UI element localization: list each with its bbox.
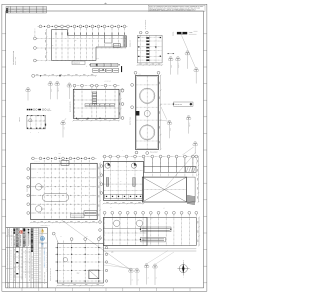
svg-text:DETAIL: DETAIL — [172, 31, 174, 36]
svg-text:8.00: 8.00 — [111, 251, 114, 253]
svg-text:D9@.10: D9@.10 — [47, 110, 51, 112]
svg-text:D9@0.10: D9@0.10 — [178, 63, 180, 68]
svg-text:TYP.DETAIL: TYP.DETAIL — [175, 104, 183, 106]
svg-text:1 2 3 4 5 6 7 8: 1 2 3 4 5 6 7 8 — [34, 161, 40, 163]
svg-text:6-D25: 6-D25 — [171, 65, 173, 68]
svg-text:DETAIL A: DETAIL A — [19, 117, 21, 122]
svg-text:4-D25: 4-D25 — [170, 128, 172, 131]
svg-text:FOOTING PLAN SC.1:75: FOOTING PLAN SC.1:75 — [50, 268, 52, 281]
svg-text:N: N — [183, 260, 184, 262]
svg-text:WATER TANK: WATER TANK — [130, 117, 132, 125]
svg-text:1F-2: 1F-2 — [77, 273, 80, 275]
svg-text:8-D25: 8-D25 — [51, 89, 53, 92]
svg-text:SCALE 1:75: SCALE 1:75 — [130, 40, 132, 47]
svg-text:D9@0.10: D9@0.10 — [58, 87, 60, 92]
svg-text:REINFORCEMENT : DEFORMED BAR S: REINFORCEMENT : DEFORMED BAR SD40 , ROUN… — [149, 10, 195, 12]
svg-text:D9@0.10: D9@0.10 — [189, 122, 191, 127]
svg-text:TYPICAL PILE F-1: TYPICAL PILE F-1 — [40, 225, 50, 227]
svg-text:2000 L: 2000 L — [50, 210, 54, 212]
svg-text:SCALE 1:100: SCALE 1:100 — [15, 57, 17, 65]
svg-text:1:100: 1:100 — [189, 32, 193, 34]
svg-text:TANK PLAN: TANK PLAN — [27, 185, 29, 192]
svg-text:4-D25: 4-D25 — [64, 127, 66, 130]
svg-text:4.00 4.00 4.00: 4.00 4.00 4.00 — [105, 81, 112, 83]
svg-text:PILE LAYOUT: PILE LAYOUT — [150, 152, 158, 154]
svg-text:MAT FOUNDATION: MAT FOUNDATION — [70, 101, 72, 112]
svg-text:TYP. PILE DETAIL: TYP. PILE DETAIL — [145, 19, 147, 30]
svg-text:2-RB9@0.20: 2-RB9@0.20 — [73, 63, 81, 65]
svg-text:2-DB16: 2-DB16 — [96, 58, 100, 60]
